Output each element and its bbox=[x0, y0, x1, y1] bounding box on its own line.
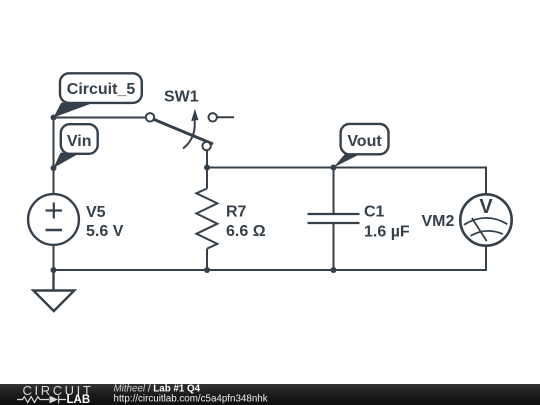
wire: SW1 unconnected throw stub bbox=[217, 116, 234, 118]
voltmeter VM2 bbox=[460, 194, 511, 245]
node flag Vout bbox=[334, 124, 389, 168]
switch SW1 bbox=[146, 109, 217, 150]
junction dot Vout node bbox=[331, 165, 337, 171]
svg-text:LAB: LAB bbox=[67, 394, 91, 405]
junction dot R7 top bbox=[204, 165, 210, 171]
svg-text:Vout: Vout bbox=[347, 133, 382, 150]
svg-text:SW1: SW1 bbox=[164, 89, 199, 106]
resistor R7 bbox=[196, 168, 217, 271]
wire: V5 negative terminal to bottom junction bbox=[53, 245, 55, 270]
svg-text:VM2: VM2 bbox=[422, 213, 455, 230]
junction dot Circuit_5 node bbox=[51, 115, 57, 121]
junction dot Vin tap bbox=[51, 165, 57, 171]
svg-text:1.6 µF: 1.6 µF bbox=[364, 223, 410, 240]
svg-text:R7: R7 bbox=[226, 204, 247, 221]
CircuitLab logo schematic mark (resistor + diode) bbox=[17, 396, 66, 404]
wire: bottom rail with VM2 bottom lead bbox=[54, 246, 487, 270]
wire: top rail with VM2 top lead bbox=[207, 168, 486, 195]
wire: SW1 pole down to R7 top node bbox=[206, 151, 208, 168]
node flag Circuit_5 bbox=[54, 73, 142, 117]
svg-text:C1: C1 bbox=[364, 203, 385, 220]
node flag Vin bbox=[54, 124, 98, 168]
svg-text:5.6 V: 5.6 V bbox=[86, 223, 124, 240]
junction dot R7 bottom bbox=[204, 267, 210, 273]
footer bar bbox=[0, 384, 540, 405]
svg-text:Vin: Vin bbox=[67, 133, 92, 150]
junction dot ground junction bbox=[51, 267, 57, 273]
voltage source V5 bbox=[28, 194, 79, 245]
svg-text:http://circuitlab.com/c5a4pfn3: http://circuitlab.com/c5a4pfn348nhk bbox=[114, 394, 268, 405]
svg-text:Circuit_5: Circuit_5 bbox=[67, 81, 136, 98]
svg-text:V5: V5 bbox=[86, 204, 106, 221]
svg-text:V: V bbox=[479, 196, 493, 218]
svg-text:6.6 Ω: 6.6 Ω bbox=[226, 223, 266, 240]
wire: Circuit_5 node down to V5 positive terminal (Vin net) bbox=[53, 118, 55, 195]
junction dot C1 bottom bbox=[331, 267, 337, 273]
ground bbox=[33, 270, 74, 311]
capacitor C1 bbox=[308, 168, 360, 271]
wire: net Circuit_5 node to SW1 left terminal bbox=[54, 117, 146, 119]
